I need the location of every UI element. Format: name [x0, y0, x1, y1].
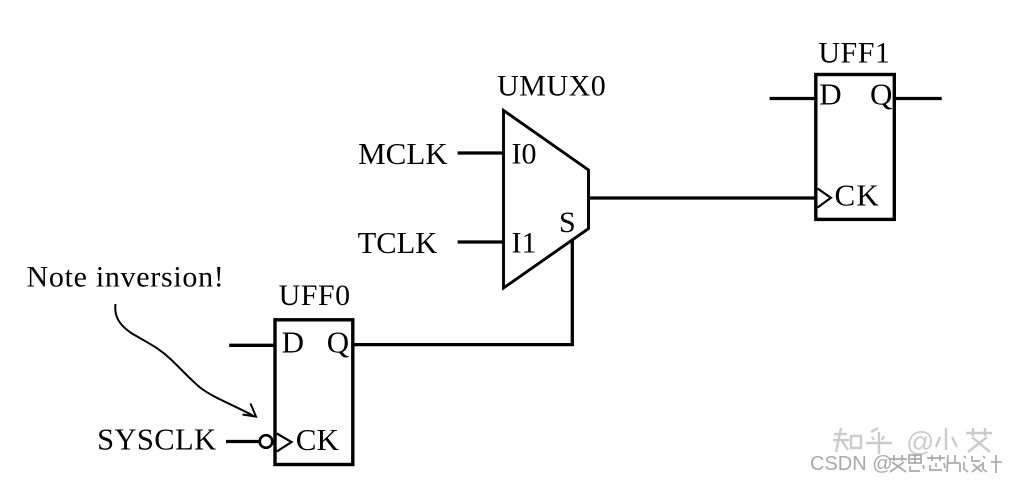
svg-text:CK: CK: [296, 422, 340, 457]
watermark line 1: 知乎 @小艾: [833, 426, 992, 457]
flip-flop UFF1 box: [816, 75, 895, 220]
svg-text:TCLK: TCLK: [358, 226, 438, 260]
clock triangle UFF1: [818, 189, 831, 208]
svg-text:Q: Q: [327, 325, 349, 360]
wire Q UFF0 to UMUX0 S pin: [353, 240, 572, 345]
svg-text:D: D: [282, 325, 304, 360]
hanzi 知: [833, 428, 861, 452]
svg-text:MCLK: MCLK: [358, 136, 448, 171]
hanzi 计: [983, 455, 1002, 473]
wire SYSCLK to inversion bubble: [226, 440, 260, 443]
flip-flop UFF0 box: [275, 320, 353, 465]
hanzi 小: [936, 428, 957, 450]
hanzi 乎: [866, 428, 892, 454]
wire UMUX0 output to UFF1 CK: [589, 196, 818, 199]
svg-text:D: D: [819, 77, 841, 112]
hanzi 艾: [889, 455, 907, 472]
wire MCLK to I0: [458, 151, 503, 154]
svg-text:CK: CK: [835, 178, 880, 213]
hanzi 芯: [927, 455, 945, 470]
hanzi 片: [947, 455, 960, 472]
annotation arrow curve: [115, 304, 252, 415]
svg-text:UMUX0: UMUX0: [497, 70, 606, 103]
svg-text:@: @: [906, 426, 934, 457]
svg-text:SYSCLK: SYSCLK: [97, 423, 216, 457]
clock triangle UFF0: [277, 434, 292, 452]
wire D input UFF0: [229, 344, 274, 347]
svg-text:I0: I0: [512, 138, 537, 171]
hanzi 思: [909, 455, 924, 471]
annotation arrow head: [243, 404, 257, 417]
inversion bubble: [260, 435, 273, 448]
multiplexer UMUX0 body: [504, 110, 589, 288]
svg-text:UFF1: UFF1: [818, 36, 890, 69]
svg-text:UFF0: UFF0: [279, 279, 351, 312]
svg-text:S: S: [559, 206, 576, 239]
hanzi 艾: [966, 428, 992, 452]
wire Q output UFF1: [895, 97, 942, 100]
wire TCLK to I1: [458, 240, 503, 243]
svg-text:I1: I1: [512, 227, 537, 260]
watermark line 2: CSDN @艾思芯片设计: [810, 453, 1002, 475]
svg-text:CSDN @: CSDN @: [810, 453, 893, 475]
hanzi 设: [964, 456, 982, 472]
wire D input UFF1: [770, 97, 815, 100]
svg-text:Q: Q: [870, 77, 892, 112]
svg-text:Note inversion!: Note inversion!: [27, 261, 225, 294]
